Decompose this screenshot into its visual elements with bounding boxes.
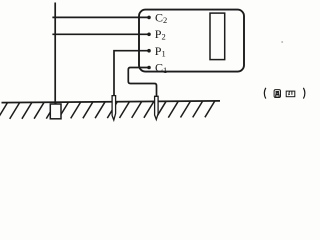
- earth plate electrode (buried square): [50, 104, 61, 119]
- meter display window: [210, 13, 225, 60]
- earth tester U1 body: [139, 10, 244, 72]
- svg-text:P2: P2: [155, 27, 166, 41]
- auxiliary stake P (rod electrode): [112, 96, 116, 120]
- wire: C1 lead to stake: [128, 68, 156, 98]
- ground surface line: [2, 101, 221, 103]
- terminal C1: [147, 66, 151, 70]
- wire: P1 lead to stake: [114, 51, 149, 97]
- terminal C2: [147, 16, 151, 20]
- terminal P1: [147, 49, 151, 53]
- terminal P2: [147, 33, 151, 37]
- stray mark: [281, 41, 283, 43]
- svg-text:C1: C1: [155, 61, 167, 75]
- auxiliary stake C (rod electrode): [155, 96, 159, 119]
- svg-text:C2: C2: [155, 11, 167, 25]
- wire: electrode pole riser: [54, 3, 56, 106]
- wire: C2 lead: [52, 16, 149, 18]
- figure caption ( 圖 四 ): [264, 88, 305, 99]
- wire: P2 lead: [52, 33, 149, 35]
- ground surface hatching: [0, 101, 215, 119]
- svg-text:P1: P1: [155, 44, 166, 58]
